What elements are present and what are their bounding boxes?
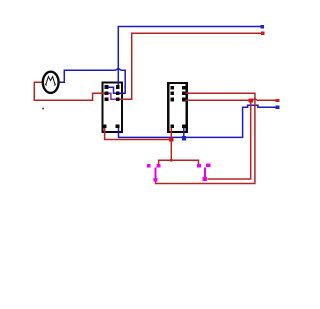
switch S2 bottom square: [202, 177, 206, 181]
wire internal blue K1 pin1-pin5: [106, 87, 117, 93]
motor M1 glyph: [46, 77, 56, 85]
wire red motor loop to K1 pin3: [34, 82, 105, 100]
wire blue bottom rail: K1 pin8 to right side: [119, 105, 276, 137]
switch S2 pivot square: [206, 163, 210, 167]
switch S1 bottom square: [153, 178, 157, 182]
stray grid dot: [42, 108, 44, 110]
relay K1 pins: [103, 85, 120, 128]
switch S2 contact left square: [197, 164, 201, 168]
switch S1 pivot square: [156, 164, 160, 168]
wire blue net: motor to K1 pin5 with hop: [58, 70, 125, 93]
wire internal purple K1 pin3-pin6: [106, 93, 117, 99]
relay K2 body: [168, 83, 186, 132]
wire blue net B: top terminal to K1 pin2: [118, 27, 262, 89]
junction J1 red square: [169, 137, 173, 141]
wire blue K2 pin8 drop: [183, 127, 185, 137]
wire red: right switch bottom to junction J2: [207, 100, 250, 179]
wire hop blue over vertical: [116, 69, 121, 71]
switch S2 lever: [204, 168, 206, 178]
junction J2 red square: [249, 99, 253, 103]
terminal T3 red square: [276, 99, 280, 102]
junction tee red dot: [170, 159, 173, 162]
switch S1: [147, 164, 160, 181]
motor M1: [43, 72, 59, 93]
terminal T1 blue square: [261, 25, 265, 29]
junction blue square K2 pin8: [182, 136, 186, 140]
switch S2: [197, 163, 210, 181]
relay K1 body: [102, 83, 122, 133]
wire red: left switch bottom to K2 pin5 via right rail: [156, 93, 255, 183]
switch S1 lever: [154, 168, 156, 178]
wire red: K2 pin6 to right terminal with hop: [185, 99, 276, 101]
wire red: K2 pin7 down to switch tee: [170, 127, 172, 160]
terminal T2 red square: [261, 32, 265, 36]
wire red switch tee bar: [159, 160, 199, 164]
switch S1 contact float square: [147, 164, 151, 168]
terminal T4 blue square: [276, 106, 280, 109]
wire red net: top terminal 2 to K1 pin6: [118, 33, 263, 99]
relay K2 pins: [170, 86, 185, 128]
wire red: K1 pin7 to junction under K2: [105, 127, 172, 140]
wire hop red over vertical: [253, 99, 257, 100]
